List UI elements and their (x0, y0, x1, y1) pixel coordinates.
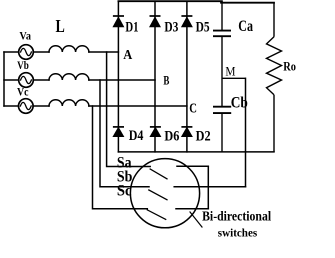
svg-text:Sc: Sc (117, 182, 132, 199)
wire switch out Sc (176, 208, 208, 210)
svg-text:M: M (225, 63, 235, 78)
switch circle (130, 159, 199, 228)
wire bottom bus (118, 151, 274, 153)
wire switch out Sb (174, 186, 208, 188)
switch blade Sc (147, 210, 165, 220)
inductor L phase B (49, 74, 89, 80)
wire Vc right stub (33, 105, 49, 107)
svg-text:D6: D6 (164, 129, 179, 145)
diode D4 (113, 127, 124, 137)
wire bridge leg B (154, 1, 156, 152)
svg-text:D2: D2 (196, 129, 211, 145)
svg-text:Vb: Vb (17, 58, 29, 72)
wire Sb tap (100, 80, 149, 187)
diode D3 (150, 16, 161, 27)
source Vc (19, 99, 34, 114)
inductor L phase C (49, 100, 89, 106)
svg-text:D5: D5 (196, 20, 210, 36)
wire bridge leg C (186, 1, 188, 152)
svg-text:D3: D3 (164, 20, 178, 36)
wire switch output bus (207, 167, 209, 209)
svg-text:L: L (56, 16, 65, 36)
wire Vc left stub (4, 105, 19, 107)
wire link to M (208, 186, 245, 188)
svg-text:Bi-directional: Bi-directional (202, 209, 271, 224)
svg-text:Ro: Ro (283, 60, 296, 74)
wire phase A (89, 51, 119, 53)
svg-text:B: B (163, 73, 169, 87)
capacitor Cb (213, 107, 231, 152)
source Va (19, 45, 34, 60)
switch blade Sa (150, 169, 167, 179)
diode D6 (150, 127, 161, 137)
wire Va left stub (4, 51, 19, 53)
wire top bus (118, 0, 221, 2)
wire left bus (3, 52, 5, 106)
node M stub (222, 77, 246, 79)
svg-text:Va: Va (19, 29, 31, 43)
svg-text:A: A (123, 47, 132, 62)
resistor Ro (267, 3, 282, 152)
diode D1 (113, 16, 124, 27)
svg-text:Ca: Ca (238, 18, 253, 35)
diode D2 (181, 127, 192, 137)
wire Sc tap (93, 106, 148, 209)
wire Va right stub (33, 51, 49, 53)
switch blade Sb (149, 190, 167, 200)
inductor L phase A (49, 46, 89, 52)
leader line (190, 212, 202, 227)
capacitor Ca (213, 1, 231, 107)
svg-text:D1: D1 (125, 19, 138, 35)
wire Sa tap (107, 52, 151, 167)
svg-text:switches: switches (218, 228, 258, 240)
svg-text:Vc: Vc (17, 85, 29, 99)
source Vb (19, 73, 34, 88)
wire phase C (89, 105, 187, 107)
wire Vb right stub (33, 79, 49, 81)
wire phase B (89, 79, 155, 81)
diode D5 (181, 16, 192, 27)
svg-text:C: C (189, 100, 197, 115)
svg-text:D4: D4 (129, 128, 144, 144)
wire bridge leg A (117, 1, 119, 152)
wire Vb left stub (4, 79, 19, 81)
wire switch out Sa (177, 165, 208, 167)
